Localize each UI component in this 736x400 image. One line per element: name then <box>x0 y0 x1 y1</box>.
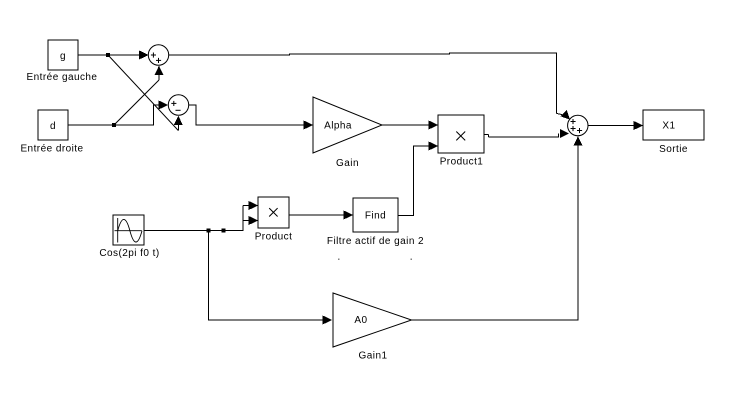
sum S2 <box>168 95 188 115</box>
product block Product1 <box>438 115 484 153</box>
wire sum S1 output to final sum S3 <box>169 53 557 55</box>
svg-text:Gain1: Gain1 <box>359 351 388 362</box>
wire sine to product inputs <box>144 201 258 231</box>
wire final sum S3 to output X1 <box>588 121 643 130</box>
wire d junction diagonal to sum S1 bottom <box>114 80 159 125</box>
junction on d wire <box>112 123 116 127</box>
svg-text:Product: Product <box>255 232 293 243</box>
wire gain Alpha to Product1 input 1 <box>382 120 438 129</box>
filter block Find <box>353 198 398 232</box>
svg-text:Find: Find <box>365 211 386 222</box>
wire sum S2 output to gain Alpha <box>189 105 313 130</box>
junction on sine wire (to Gain1) <box>207 229 211 233</box>
junction on g wire <box>106 53 110 57</box>
wire sine junction to gain A0 <box>209 231 333 325</box>
annotation dot right <box>411 259 413 261</box>
gain Alpha <box>313 97 382 153</box>
svg-text:Alpha: Alpha <box>324 121 352 132</box>
output block X1 <box>643 110 704 140</box>
wire Product1 output to final sum S3 <box>484 129 569 138</box>
gain A0 <box>333 293 412 347</box>
svg-text:Cos(2pi f0 t): Cos(2pi f0 t) <box>99 248 159 259</box>
wire gain A0 output to final sum S3 bottom <box>412 136 583 320</box>
svg-text:Sortie: Sortie <box>659 144 688 155</box>
wire Product to Find <box>289 210 353 219</box>
svg-text:g: g <box>60 51 66 62</box>
svg-text:Gain: Gain <box>336 158 359 169</box>
wire Find output to Product1 input 2 <box>398 141 438 216</box>
wire g to sum S1 <box>78 50 149 59</box>
annotation dot left <box>338 259 340 261</box>
sine source Cos <box>113 215 144 245</box>
input block g <box>48 40 78 70</box>
svg-text:d: d <box>50 121 56 132</box>
input block d <box>38 110 68 140</box>
sum S1 <box>148 45 168 65</box>
junction dot 2 on sine wire <box>222 229 226 233</box>
final sum S3 <box>568 115 588 135</box>
svg-text:Entrée droite: Entrée droite <box>20 144 83 155</box>
wire d to sum S2 <box>68 100 168 125</box>
wire g junction diagonal to sum S2 bottom <box>108 55 178 131</box>
svg-text:Entrée gauche: Entrée gauche <box>27 72 98 83</box>
svg-text:A0: A0 <box>354 315 367 326</box>
svg-text:X1: X1 <box>662 121 675 132</box>
svg-text:Filtre actif de gain 2: Filtre actif de gain 2 <box>327 236 424 247</box>
product block Product <box>258 197 289 228</box>
svg-text:Product1: Product1 <box>440 157 484 168</box>
